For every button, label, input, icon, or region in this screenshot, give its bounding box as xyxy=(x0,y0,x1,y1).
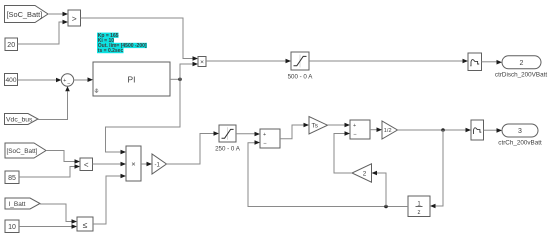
wire unit delay feedback to S1 minus input xyxy=(248,140,408,208)
product X1 (small multiply) xyxy=(198,57,206,67)
sum block S1 xyxy=(260,129,280,148)
wire tag2 to LT input1 xyxy=(46,151,80,164)
constant 400 xyxy=(5,74,18,86)
svg-text:≤: ≤ xyxy=(83,220,88,230)
relational operator GT xyxy=(68,10,81,26)
svg-text:-1: -1 xyxy=(155,162,161,168)
rate transition RT1 xyxy=(468,53,482,71)
relational operator LE xyxy=(77,217,93,231)
constant 10 xyxy=(5,220,19,233)
wire const85 to LT input2 xyxy=(19,164,80,177)
svg-text:×: × xyxy=(131,160,135,169)
wire const400 to sum xyxy=(18,78,62,83)
from tag SoC_Batt (top) xyxy=(5,6,49,23)
wire const20 to GT input2 xyxy=(18,20,69,44)
wire tag1 to GT input1 xyxy=(48,12,68,17)
wire Vdc_bus to sum bottom input xyxy=(38,86,70,119)
wire const10 to LE input2 xyxy=(19,224,77,229)
svg-text:+: + xyxy=(263,132,266,138)
svg-text:[SoC_Batt]: [SoC_Batt] xyxy=(7,148,38,155)
wire S1 to gain Ts xyxy=(280,123,309,139)
svg-text:−: − xyxy=(67,81,70,87)
from tag I_Batt xyxy=(5,198,40,209)
wire X2 to gain -1 xyxy=(141,162,152,167)
svg-text:+: + xyxy=(63,78,66,84)
wire 1/2 to rate transition RT2 with branch junction xyxy=(398,128,472,133)
wire RT1 to outport 2 xyxy=(482,60,503,65)
from tag Vdc_bus xyxy=(5,114,39,125)
unit delay 1/z xyxy=(408,196,430,217)
svg-text:<: < xyxy=(84,161,89,170)
from tag SoC_Batt (lower) xyxy=(5,143,46,158)
rate transition RT2 xyxy=(471,120,484,140)
wire feedback branch to gain 2 xyxy=(372,171,387,207)
wire gain -1 to saturation 250-0A xyxy=(167,131,220,164)
wire LE output to product X2 input3 xyxy=(93,174,126,224)
PI controller block xyxy=(93,62,170,96)
relational operator LT xyxy=(80,158,93,171)
svg-text:20: 20 xyxy=(7,42,15,49)
svg-text:3: 3 xyxy=(518,128,522,135)
svg-text:2: 2 xyxy=(363,171,367,178)
wire gain 2 to S2 minus input xyxy=(334,131,352,173)
outport 3 ctrCh_200vBatt xyxy=(498,124,542,146)
wire sum to PI xyxy=(74,77,93,82)
svg-text:1/2: 1/2 xyxy=(384,128,392,134)
wire Ts to sum S2 xyxy=(328,123,351,128)
product X2 (3-input multiply) xyxy=(126,146,141,181)
svg-text:I_Batt: I_Batt xyxy=(9,201,26,208)
svg-text:>: > xyxy=(72,14,77,24)
svg-text:Ts: Ts xyxy=(312,123,318,130)
svg-text:PI: PI xyxy=(128,75,136,85)
wire RT2 to outport 3 xyxy=(484,128,503,133)
wire saturation 250 to sum S1 plus input xyxy=(236,132,260,137)
saturation block 250 - 0 A xyxy=(215,125,241,152)
svg-text:[SoC_Batt]: [SoC_Batt] xyxy=(7,10,43,19)
svg-text:250 - 0 A: 250 - 0 A xyxy=(215,145,241,152)
wire LT output to product X2 input2 xyxy=(93,162,127,167)
wire branch down to unit delay input xyxy=(430,130,443,208)
svg-text:ctrCh_200vBatt: ctrCh_200vBatt xyxy=(498,139,542,146)
gain 2 (left pointing) xyxy=(352,164,372,182)
gain -1 xyxy=(152,154,167,174)
wire PI branch to product X2 input1 xyxy=(106,79,181,154)
svg-text:×: × xyxy=(200,59,204,66)
svg-text:10: 10 xyxy=(8,224,16,231)
gain Ts xyxy=(309,117,328,135)
svg-text:Vdc_bus: Vdc_bus xyxy=(6,117,33,124)
wire PI output with branch junction xyxy=(170,62,198,81)
constant 20 xyxy=(5,38,18,51)
svg-text:z: z xyxy=(418,210,421,216)
gain 1/2 xyxy=(382,121,398,139)
annotation PI tuning note xyxy=(97,33,147,55)
svg-text:2: 2 xyxy=(520,60,524,67)
svg-text:500 - 0 A: 500 - 0 A xyxy=(288,73,314,80)
wire S2 to gain 1/2 xyxy=(370,127,382,132)
svg-text:ctrDisch_200VBatt: ctrDisch_200VBatt xyxy=(495,71,547,78)
wire X1 to saturation 500-0A xyxy=(206,59,291,64)
wire GT output to product X1 input1 xyxy=(81,18,199,61)
outport 2 ctrDisch_200VBatt xyxy=(495,56,547,79)
svg-text:ts = 0.2sec: ts = 0.2sec xyxy=(98,48,124,54)
sum junction (+/-) xyxy=(61,74,73,88)
constant 85 xyxy=(5,171,19,184)
wire saturation to rate transition RT1 xyxy=(309,59,468,64)
sum block S2 xyxy=(350,120,370,139)
svg-text:400: 400 xyxy=(5,77,16,84)
svg-text:85: 85 xyxy=(8,175,16,182)
svg-text:+: + xyxy=(353,123,356,129)
wire I_Batt to LE input1 xyxy=(40,204,77,224)
saturation block 500 - 0 A xyxy=(288,52,314,80)
